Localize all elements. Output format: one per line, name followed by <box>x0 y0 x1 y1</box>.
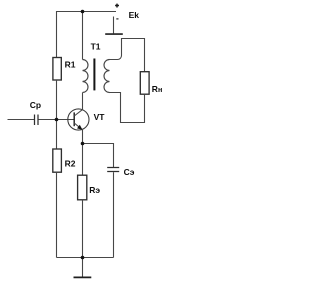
transformer T1 primary winding <box>83 60 89 93</box>
capacitor Cp <box>35 115 39 126</box>
resistor Rn <box>140 72 149 95</box>
node: base junction dot <box>55 118 59 122</box>
wire: Ce bottom lead <box>113 172 115 257</box>
wire: top supply rail with R1 branch corner <box>57 12 117 58</box>
wire: collector lead up to primary coil <box>82 93 84 110</box>
minus terminal stub of Ek <box>113 17 115 34</box>
svg-text:R2: R2 <box>65 159 76 169</box>
svg-text:R: R <box>152 84 158 94</box>
ground bar <box>74 276 92 278</box>
transformer T1 core <box>93 59 95 91</box>
svg-text:Rэ: Rэ <box>89 185 100 195</box>
transistor VT collector stroke <box>74 110 82 116</box>
transistor VT emitter arrow <box>77 125 82 130</box>
wire: input lead <box>8 119 35 121</box>
wire: secondary top to Rn top <box>110 39 145 72</box>
wire: primary top lead from rail junction <box>82 12 84 60</box>
svg-text:н: н <box>158 85 162 94</box>
transistor VT emitter stroke <box>74 123 82 130</box>
wire: emitter lead down <box>82 130 84 175</box>
svg-text:VT: VT <box>94 112 106 122</box>
wire: R1 bottom to R2 top (divider) <box>56 80 58 149</box>
minus sign <box>116 18 118 20</box>
wire: Cp to base node <box>39 119 74 121</box>
svg-text:R1: R1 <box>65 60 76 70</box>
transistor VT circle <box>68 109 89 130</box>
resistor R1 <box>53 58 61 81</box>
node: rail junction dot <box>81 10 85 14</box>
wire: bottom ground rail <box>57 257 114 259</box>
svg-text:T1: T1 <box>91 42 101 52</box>
svg-text:Ek: Ek <box>129 10 140 20</box>
wire: Re bottom lead <box>82 200 84 258</box>
node: ground rail junction dot <box>81 256 85 260</box>
plus terminal of Ek <box>115 4 119 8</box>
capacitor Ce <box>107 168 119 172</box>
node: emitter junction dot <box>81 142 85 146</box>
resistor R2 <box>53 149 62 172</box>
svg-text:Cp: Cp <box>30 100 41 110</box>
wire: emitter node to Ce branch <box>83 144 114 168</box>
wire: Rn bottom U-loop to secondary bottom <box>110 93 145 123</box>
transistor VT base bar <box>73 112 75 126</box>
svg-text:Cэ: Cэ <box>124 167 135 177</box>
ground stub <box>82 258 84 277</box>
resistor Re <box>78 175 87 200</box>
terminal bar of Ek minus <box>105 33 123 35</box>
transformer T1 secondary winding <box>104 60 109 93</box>
wire: R2 bottom to ground rail <box>56 172 58 257</box>
